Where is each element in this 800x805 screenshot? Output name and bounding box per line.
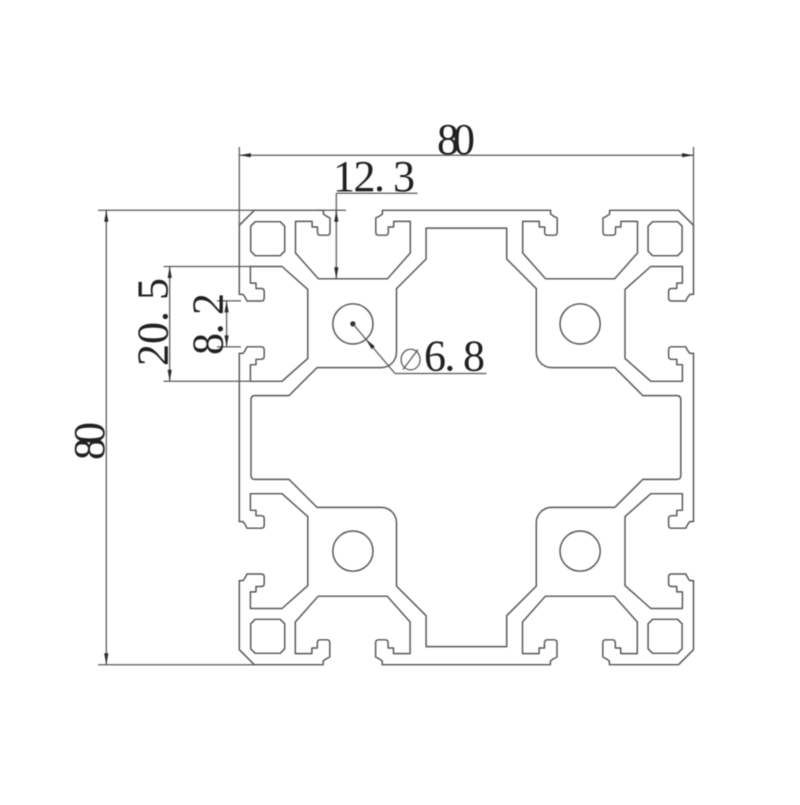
svg-text:80: 80 <box>437 115 475 164</box>
svg-text:20. 5: 20. 5 <box>129 278 178 366</box>
svg-text:12. 3: 12. 3 <box>333 152 415 201</box>
svg-text:80: 80 <box>65 422 114 460</box>
svg-text:6. 8: 6. 8 <box>424 332 485 381</box>
svg-text:8. 2: 8. 2 <box>184 293 233 355</box>
